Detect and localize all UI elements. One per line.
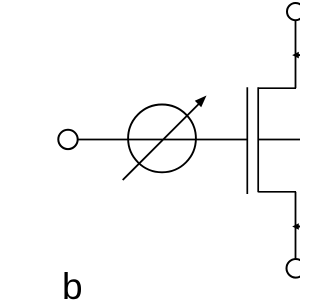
- svg-text:b: b: [62, 266, 83, 300]
- arrow source pointer: [292, 223, 300, 230]
- terminal T3 (source, bottom right): [287, 259, 306, 278]
- wire source vertical: [295, 192, 297, 259]
- arrow drain pointer: [292, 52, 300, 59]
- wire drain vertical: [295, 21, 297, 89]
- terminal T2 (drain, top right): [287, 3, 304, 20]
- wire gate horizontal: [78, 139, 247, 141]
- transistor Q1 (MOSFET): [247, 87, 300, 194]
- variable source V1: [123, 96, 207, 181]
- terminal T1 (gate input, left): [58, 130, 77, 149]
